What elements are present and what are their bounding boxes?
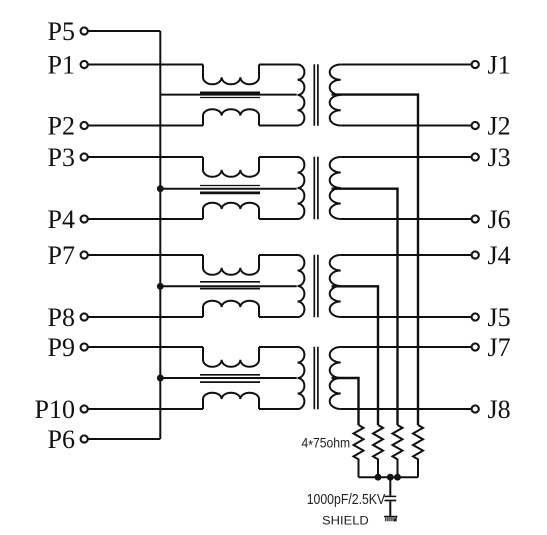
wire T1 secondary to J1 bbox=[341, 64, 472, 66]
wire T2 secondary to J3 bbox=[341, 156, 472, 158]
choke T3 bottom winding bbox=[203, 301, 259, 317]
pin P1 bbox=[81, 61, 88, 68]
wire choke T3 to primary winding bbox=[259, 254, 298, 256]
junction cap/bus bbox=[387, 474, 394, 481]
pin J2 bbox=[472, 122, 479, 129]
wire bus to T3 primary center tap bbox=[160, 285, 296, 287]
transformer T4 primary winding bbox=[298, 347, 305, 409]
pin P3 bbox=[81, 153, 88, 160]
pin P10 bbox=[81, 405, 88, 412]
svg-text:J1: J1 bbox=[488, 50, 511, 79]
pin P2 bbox=[81, 122, 88, 129]
svg-text:P1: P1 bbox=[48, 50, 75, 79]
choke T1 core bar upper bbox=[200, 92, 260, 95]
svg-text:P8: P8 bbox=[48, 303, 75, 332]
wire T3 secondary center tap to termination bbox=[332, 286, 379, 425]
choke T1 top winding bbox=[203, 65, 259, 85]
transformer T4 core bbox=[314, 347, 318, 410]
wire T1 secondary to J2 bbox=[341, 125, 472, 127]
wire resistor common bus bbox=[359, 476, 419, 478]
svg-text:P7: P7 bbox=[48, 241, 75, 270]
svg-text:P6: P6 bbox=[48, 425, 75, 454]
svg-text:P5: P5 bbox=[48, 17, 75, 46]
choke T4 bottom winding bbox=[203, 393, 259, 409]
transformer T1 core bbox=[314, 64, 318, 126]
pin J1 bbox=[472, 61, 479, 68]
pin P9 bbox=[81, 343, 88, 350]
wire P7 to choke T3 bbox=[88, 254, 203, 256]
pin P4 bbox=[81, 215, 88, 222]
choke T3 top winding bbox=[203, 255, 259, 275]
svg-text:P9: P9 bbox=[48, 333, 75, 362]
choke T4 core bar upper bbox=[200, 374, 260, 376]
wire bus to T4 primary center tap bbox=[160, 377, 296, 379]
pin J8 bbox=[472, 405, 479, 412]
svg-text:J5: J5 bbox=[488, 303, 511, 332]
svg-text:SHIELD: SHIELD bbox=[322, 513, 369, 527]
wire T3 secondary to J5 bbox=[341, 316, 472, 318]
junction bus/T4 center tap bbox=[157, 375, 164, 382]
pin J4 bbox=[472, 251, 479, 258]
capacitor C1 top plate bbox=[385, 495, 397, 497]
wire T2 secondary to J6 bbox=[341, 218, 472, 220]
pin P8 bbox=[81, 313, 88, 320]
wire choke T2 to primary winding bbox=[259, 156, 298, 158]
resistor R4 75ohm bbox=[413, 425, 423, 477]
svg-text:J8: J8 bbox=[488, 395, 511, 424]
pin P7 bbox=[81, 251, 88, 258]
transformer T2 core bbox=[314, 157, 318, 220]
pin J3 bbox=[472, 153, 479, 160]
transformer T1 secondary winding bbox=[330, 65, 341, 126]
wire P6 to bus bbox=[88, 438, 161, 440]
choke T3 core bar upper bbox=[200, 281, 260, 283]
pin J7 bbox=[472, 343, 479, 350]
svg-text:J7: J7 bbox=[488, 333, 511, 362]
junction bus/T3 center tap bbox=[157, 283, 164, 290]
wire P8 to choke T3 bottom bbox=[88, 316, 203, 318]
wire bus to T1 primary center tap bbox=[160, 94, 296, 96]
transformer T3 core bbox=[314, 255, 318, 318]
shield chassis ground bar bbox=[384, 516, 397, 518]
transformer T2 primary winding bbox=[298, 157, 305, 219]
junction bus/T2 center tap bbox=[157, 185, 164, 192]
svg-text:J6: J6 bbox=[488, 205, 511, 234]
svg-text:P10: P10 bbox=[35, 395, 75, 424]
shield chassis ground hatching bbox=[386, 517, 397, 521]
svg-text:1000pF/2.5KV: 1000pF/2.5KV bbox=[307, 492, 386, 508]
svg-text:J4: J4 bbox=[488, 241, 511, 270]
capacitor C1 1000pF/2.5KV lead bbox=[389, 477, 391, 496]
resistor R2 75ohm bbox=[373, 425, 383, 477]
junction R3/bus bbox=[394, 474, 401, 481]
choke T1 core bar lower bbox=[200, 97, 260, 99]
wire P9 to choke T4 bbox=[88, 346, 203, 348]
node P5/P6 common bus bbox=[159, 31, 161, 439]
transformer T4 secondary winding bbox=[330, 347, 341, 409]
svg-text:P3: P3 bbox=[48, 143, 75, 172]
wire P1 to choke T1 bbox=[88, 64, 203, 66]
choke T4 core bar lower bbox=[200, 381, 260, 383]
svg-text:P4: P4 bbox=[48, 205, 75, 234]
transformer T1 primary winding bbox=[298, 65, 305, 126]
pin P5 bbox=[81, 27, 88, 34]
wire P3 to choke T2 bbox=[88, 156, 203, 158]
pin J5 bbox=[472, 313, 479, 320]
wire choke T4 to primary winding bbox=[259, 346, 298, 348]
wire T1 secondary center tap to termination bbox=[332, 95, 419, 425]
wire P5 to bus bbox=[88, 30, 161, 32]
junction R2/bus bbox=[375, 474, 382, 481]
wire choke T1 to primary winding bbox=[259, 64, 298, 66]
pin P6 bbox=[81, 435, 88, 442]
pin J6 bbox=[472, 215, 479, 222]
choke T2 core bar lower bbox=[200, 191, 260, 194]
transformer T2 secondary winding bbox=[330, 157, 341, 219]
transformer T3 primary winding bbox=[298, 255, 305, 317]
resistor R1 75ohm bbox=[354, 425, 364, 477]
choke T2 bottom winding bbox=[203, 203, 259, 219]
wire T2 secondary center tap to termination bbox=[332, 189, 398, 425]
choke T3 core bar lower bbox=[200, 288, 260, 290]
transformer T3 secondary winding bbox=[330, 255, 341, 317]
svg-text:J3: J3 bbox=[488, 143, 511, 172]
wire P10 to choke T4 bottom bbox=[88, 408, 203, 410]
resistor R3 75ohm bbox=[393, 425, 403, 477]
wire T4 secondary to J8 bbox=[341, 408, 472, 410]
capacitor C1 bottom plate bbox=[385, 500, 397, 502]
wire P4 to choke T2 bottom bbox=[88, 218, 203, 220]
svg-text:P2: P2 bbox=[48, 111, 75, 140]
wire T4 secondary center tap to termination bbox=[332, 378, 359, 425]
wire T3 secondary to J4 bbox=[341, 254, 472, 256]
choke T2 top winding bbox=[203, 157, 259, 177]
capacitor C1 lower lead bbox=[389, 501, 391, 516]
choke T1 bottom winding bbox=[203, 109, 259, 125]
wire T4 secondary to J7 bbox=[341, 346, 472, 348]
choke T4 top winding bbox=[203, 347, 259, 367]
svg-text:J2: J2 bbox=[488, 111, 511, 140]
choke T2 core bar upper bbox=[200, 185, 260, 187]
svg-text:4*75ohm: 4*75ohm bbox=[302, 435, 351, 452]
wire P2 to choke T1 bottom bbox=[88, 125, 203, 127]
wire bus to T2 primary center tap bbox=[160, 188, 296, 190]
